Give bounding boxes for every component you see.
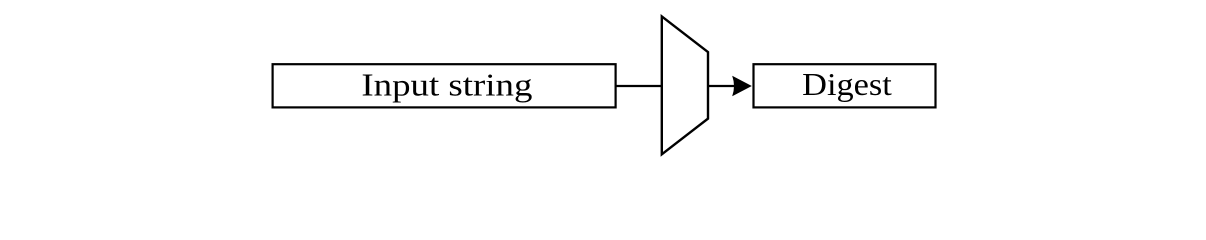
digest box bbox=[754, 64, 936, 107]
wire input-to-funnel bbox=[616, 85, 662, 87]
arrowhead bbox=[732, 76, 752, 97]
svg-text:Digest: Digest bbox=[802, 67, 892, 102]
input box bbox=[273, 64, 616, 107]
wire funnel-to-digest bbox=[708, 85, 736, 87]
hash funnel bbox=[662, 16, 708, 154]
svg-text:Input string: Input string bbox=[361, 67, 532, 102]
